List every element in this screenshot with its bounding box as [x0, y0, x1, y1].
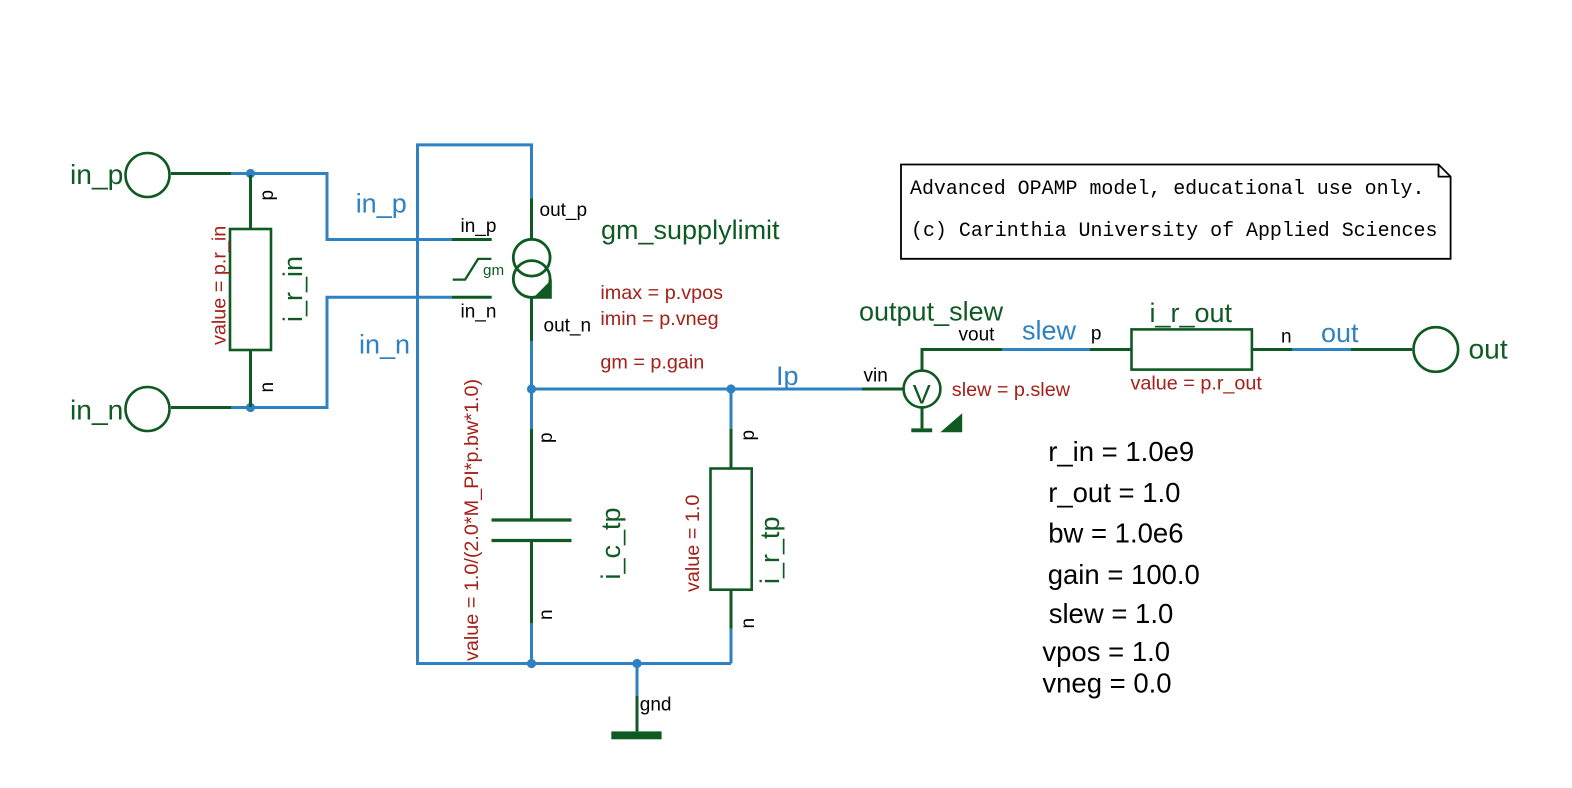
svg-text:gnd: gnd [640, 694, 672, 715]
gm ramp icon [453, 259, 492, 280]
wire junction to i_c_tp top [530, 389, 533, 429]
wire feedback loop out_p to bottom rail [418, 145, 732, 664]
voltage source output_slew [859, 297, 1071, 433]
svg-text:p: p [738, 430, 759, 441]
svg-text:n: n [257, 382, 278, 393]
wire net in_p from junction to gm pin [251, 174, 453, 240]
resistor i_r_tp body [711, 469, 752, 590]
svg-text:n: n [738, 618, 759, 629]
wire i_c_tp bottom to rail [530, 623, 533, 663]
svg-text:value = p.r_in: value = p.r_in [209, 226, 231, 345]
port in_p pin [171, 172, 231, 175]
svg-text:slew: slew [1022, 316, 1077, 346]
wire gm out_n to node Ip [530, 341, 533, 390]
svg-text:output_slew: output_slew [859, 297, 1004, 327]
svg-text:out: out [1469, 333, 1508, 365]
svg-text:vpos = 1.0: vpos = 1.0 [1042, 636, 1170, 667]
wire junction to i_r_tp top [730, 389, 733, 429]
svg-text:n: n [536, 609, 557, 620]
svg-text:r_in = 1.0e9: r_in = 1.0e9 [1048, 436, 1194, 467]
svg-text:r_out = 1.0: r_out = 1.0 [1048, 477, 1180, 508]
node junction in_p [246, 169, 255, 178]
ground bar [611, 731, 661, 739]
note box fold flap [1439, 165, 1451, 177]
node junction gnd [632, 659, 641, 668]
output_slew behavioral triangle marker [940, 413, 962, 432]
svg-text:n: n [1281, 327, 1292, 348]
svg-text:in_p: in_p [70, 158, 123, 190]
svg-text:in_p: in_p [356, 189, 407, 219]
resistor i_r_in pins [249, 175, 252, 407]
svg-text:bw = 1.0e6: bw = 1.0e6 [1048, 518, 1183, 549]
resistor i_r_in body [230, 229, 271, 350]
resistor i_r_tp [682, 429, 785, 629]
resistor i_r_out body [1132, 329, 1252, 369]
svg-text:out_n: out_n [544, 315, 592, 336]
gm_supplylimit output pins out_p/out_n [530, 199, 533, 342]
svg-text:(c) Carinthia University of Ap: (c) Carinthia University of Applied Scie… [911, 219, 1437, 242]
resistor i_r_out [1090, 298, 1292, 395]
svg-text:imin = p.vneg: imin = p.vneg [600, 308, 718, 330]
svg-text:V: V [913, 380, 931, 410]
resistor i_r_tp pins [730, 429, 733, 629]
capacitor i_c_tp plates [492, 520, 572, 541]
svg-text:gain = 100.0: gain = 100.0 [1048, 559, 1200, 590]
output_slew source circle [904, 371, 941, 408]
svg-text:gm: gm [483, 262, 504, 279]
svg-text:i_r_in: i_r_in [278, 256, 308, 322]
port in_p [70, 153, 231, 197]
svg-text:Ip: Ip [776, 361, 799, 391]
svg-text:i_r_out: i_r_out [1150, 298, 1233, 328]
svg-text:i_c_tp: i_c_tp [596, 507, 626, 579]
svg-text:slew = p.slew: slew = p.slew [952, 379, 1071, 401]
wire net in_n from junction to gm pin [251, 297, 453, 407]
gm_supplylimit behavioral triangle marker [532, 279, 552, 299]
ground [611, 694, 671, 739]
port in_n [70, 387, 231, 431]
gm_supplylimit input pins in_p/in_n [452, 240, 492, 298]
gm_supplylimit current source circle lower [513, 261, 550, 298]
port out circle [1414, 327, 1459, 372]
capacitor i_c_tp pins [530, 429, 533, 623]
svg-text:in_n: in_n [359, 330, 410, 360]
svg-text:i_r_tp: i_r_tp [755, 516, 785, 584]
svg-text:p: p [536, 432, 557, 443]
svg-text:in_n: in_n [461, 302, 497, 323]
resistor i_r_out pins [1090, 348, 1292, 351]
svg-text:in_n: in_n [70, 394, 123, 426]
svg-text:slew = 1.0: slew = 1.0 [1049, 598, 1174, 629]
svg-text:gm = p.gain: gm = p.gain [600, 352, 704, 374]
wire net Ip horizontal [532, 388, 863, 391]
note box [901, 165, 1451, 259]
port out [1351, 327, 1508, 372]
capacitor i_c_tp [461, 379, 626, 661]
port in_n circle [126, 387, 170, 431]
svg-text:p: p [1091, 324, 1102, 345]
output_slew reference stub [921, 407, 924, 428]
svg-text:vout: vout [959, 325, 996, 346]
node junction cap bottom [527, 659, 536, 668]
svg-text:vneg = 0.0: vneg = 0.0 [1042, 668, 1171, 699]
port in_n pin [171, 406, 231, 409]
svg-text:out: out [1321, 318, 1359, 348]
svg-text:out_p: out_p [540, 200, 588, 221]
node junction Ip left [527, 384, 536, 393]
op-amp transconductance block gm_supplylimit [452, 199, 780, 374]
port in_p circle [126, 153, 170, 197]
wire i_r_tp bottom to rail [730, 629, 733, 664]
svg-text:imax = p.vpos: imax = p.vpos [600, 282, 723, 304]
node junction in_n [246, 403, 255, 412]
wire net out [1292, 348, 1351, 351]
node junction Ip right [726, 384, 735, 393]
svg-text:vin: vin [864, 366, 888, 387]
svg-text:p: p [257, 190, 278, 201]
port out pin [1351, 348, 1412, 351]
output_slew vin pin [862, 388, 904, 391]
ground stub [636, 696, 639, 731]
output_slew vout pin [922, 350, 1002, 371]
wire in_n port to junction [231, 406, 251, 409]
wire in_p port to junction [231, 172, 251, 175]
output_slew reference bar [911, 428, 932, 432]
svg-text:value = 1.0: value = 1.0 [682, 495, 704, 592]
svg-text:Advanced OPAMP model, educatio: Advanced OPAMP model, educational use on… [910, 177, 1424, 200]
svg-text:in_p: in_p [461, 216, 497, 237]
svg-text:value = 1.0/(2.0*M_PI*p.bw*1.0: value = 1.0/(2.0*M_PI*p.bw*1.0) [461, 379, 483, 661]
note box outline with folded corner [901, 165, 1451, 259]
wire rail to gnd [636, 664, 639, 697]
resistor i_r_in [209, 175, 308, 407]
svg-text:gm_supplylimit: gm_supplylimit [601, 215, 780, 245]
svg-text:value = p.r_out: value = p.r_out [1131, 373, 1263, 395]
gm_supplylimit current source circle upper [513, 239, 550, 276]
wire net slew [1002, 348, 1090, 351]
